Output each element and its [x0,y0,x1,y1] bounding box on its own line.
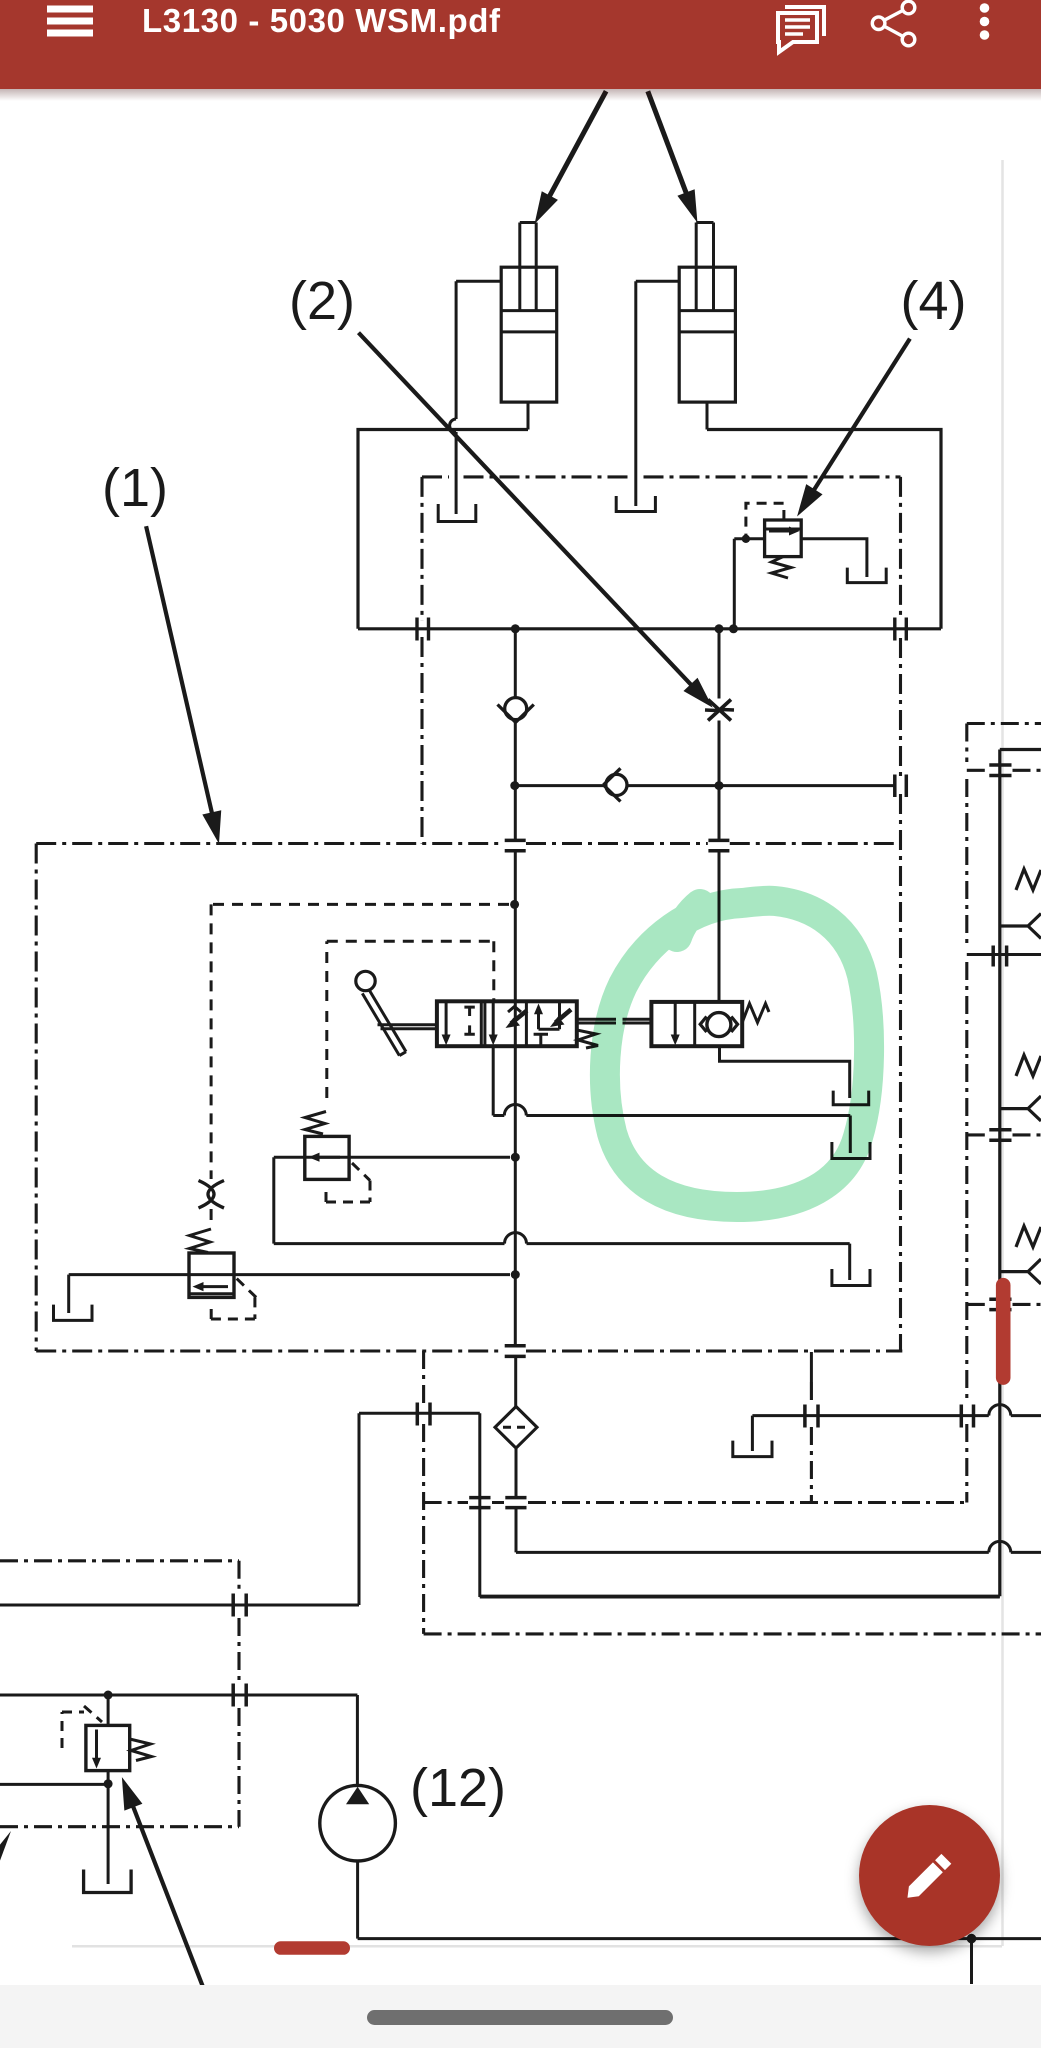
hamburger menu icon [47,9,93,33]
right valve actuator arrow 2 [1000,1096,1041,1121]
plugged port relief2 drain [54,1305,93,1321]
label (2) arrow [359,333,712,707]
wire tank return east [516,1551,1041,1554]
label arrow from off-screen to relief3 [123,1779,204,1987]
relief valve R1 spring [305,1112,326,1135]
pencil icon [903,1854,952,1903]
DV1 cell2 flow arrow [492,1001,495,1037]
wire orifice branch x719 [718,629,721,699]
boundary ticks y1415 at x967 [961,1405,973,1428]
DV1 cell2 throttle arrow [511,1011,527,1024]
green highlighter ring [605,901,869,1207]
relief valve R3 spring [130,1739,152,1761]
overflow menu icon [980,3,990,40]
wire suction stub [970,1939,973,1984]
plugged port return [733,1441,772,1457]
DV1 cell3 throttle arrow [556,1010,572,1023]
dash-dot enclosure 1 top edge [36,842,900,845]
directional valve DV1 body [437,1001,577,1046]
relief valve 4 flow arrow [769,530,793,533]
UV spring [742,1004,769,1023]
dash-dot transmission box top y1561 [0,1559,239,1562]
boundary ticks y1415 at x811 [805,1405,818,1428]
page right edge line [1001,160,1004,1946]
plugged port A2 [616,496,655,512]
junction dot P1 [511,624,520,633]
wire cylinder-left rod-side port [456,281,501,514]
wire pump outlet bottom [358,1861,1041,1939]
relief valve 4 pilot dashed [746,503,784,535]
wire relief2 tank drop [67,1275,70,1313]
label (1) arrow [146,526,221,842]
relief valve 4 seat line [765,528,802,531]
DV1 return spring [577,1030,598,1048]
boundary ticks x1000 at y1304 [989,1299,1011,1309]
pilot throttle symbol [199,1181,225,1209]
wire relief4 outlet [801,539,867,577]
wire jump y1415 over x1000 [989,1405,1011,1416]
junction dot pilot4 [742,535,750,543]
wire jump over block edge [450,419,456,432]
relief valve R2 flow arrow [198,1285,228,1288]
annotation icon [778,7,824,52]
DV1 cell1 flow arrow [445,1001,448,1037]
wire pump pressure east [480,1596,1000,1599]
page bottom edge line [72,1945,1002,1948]
relief valve R2 body [189,1253,234,1297]
right valve spring 3 [1016,1226,1041,1247]
pointer arrow to left cylinder [535,91,606,222]
plugged port T3 [832,1269,870,1286]
wire pressure line x515 upper [514,629,517,698]
relief valve R3 flow arrow [95,1730,98,1762]
cylinder left rod [520,223,536,311]
wire x515 to tee [514,720,517,840]
boundary ticks y1605 at x239 [233,1594,246,1617]
dash-dot transmission box right x239 [237,1561,240,1827]
dash-dot transmission box bottom y1827 [0,1825,239,1828]
wire DV1 tank line [493,1046,850,1153]
boundary ticks y1695 at x239 [233,1684,246,1707]
pilot dashed to relief1 [327,941,494,1001]
DV1 cell3 up arrow [539,1001,560,1029]
wire bridge line y785 [515,784,894,787]
unload valve UV body [651,1002,742,1046]
boundary ticks x1000 at y1135 [989,1130,1011,1140]
pointer arrow to right cylinder [648,91,697,221]
junction dot relief1 at x515 [511,1153,520,1162]
plugged port relief4 drain [847,568,886,583]
junction dot relief3 [104,1779,113,1788]
wire suction west y1605 [0,1604,359,1607]
orifice restrictor (2) [705,700,734,721]
cylinder left piston [501,311,557,332]
dash-dot right enclosure left x967 [965,724,968,1503]
DV1 cell1 blocked ports [464,1007,474,1034]
junction dot relief2 at x515 [511,1270,520,1279]
wire cylinder-right bottom port [706,402,709,429]
cylinder right rod [696,223,713,311]
wire x515 through valve [514,852,517,1345]
boundary ticks y785 at x900 [895,775,907,798]
share icon [872,1,915,46]
wire jump relief1 drain over x515 [505,1233,527,1244]
DV1 cell3 blocked port [534,1034,548,1046]
app bar [0,0,1041,89]
wire feed y1695 [0,1695,357,1785]
valve block solid outline [358,430,941,629]
wire relief1 drain loop [274,1157,850,1280]
cylinder left barrel [501,267,557,402]
right valve spring 2 [1016,1055,1041,1076]
dash-dot lower horizontal y1634 [424,1632,1041,1635]
wire relief4 inlet [734,539,764,629]
footer gesture area [0,1985,1041,2048]
wire relief3 outlet [107,1771,110,1884]
cylinder right piston [679,311,735,332]
lever shaft [362,990,406,1056]
boundary ticks x1000 at y954 [993,946,1006,967]
boundary ticks x515 on box1 bottom [505,1346,526,1357]
dash-dot right enclosure top y723 [967,722,1041,725]
relief valve R3 pilot dashed [62,1706,102,1748]
wire UV outlet [720,1046,850,1098]
dash-dot enclosure 1 bottom edge [36,1349,902,1352]
wire jump DV1 tank over x515 [504,1105,526,1116]
check valve V1 [505,698,527,720]
wire filter outlet [515,1448,518,1552]
junction dot P2 [715,624,724,633]
boundary ticks y1502 at x480 [469,1498,490,1508]
boundary ticks x516 on dashdot y1502 [505,1498,526,1508]
boundary ticks at x422 crossing [417,618,429,641]
boundary ticks at x900 crossing [895,618,907,641]
dash-dot stub below box1 at x811 [810,1352,813,1382]
wire y1784 west [0,1783,108,1786]
arrowhead at left edge [0,1831,11,1866]
pump P (12) [320,1785,396,1861]
right valve spring 1 [1016,869,1041,890]
right valve actuator arrow 3 [1000,1259,1041,1284]
right valve actuator arrow 1 [1000,914,1041,939]
boundary ticks y1413 at x423 [417,1403,430,1426]
wire right valve supply vertical [480,750,1041,1597]
wire relief2 main line [69,1273,510,1276]
wire jump over x1000 [989,1541,1011,1552]
pilot dashed below throttle [210,1209,213,1228]
boundary ticks x515 on box1 top [505,840,526,850]
check valve V2 [606,774,627,795]
wire right valve y954 [967,953,1041,956]
junction dot P3 [729,624,738,633]
lever knob [356,971,375,990]
label (4) arrow [798,339,910,515]
pilot dashed net to relief2 [211,904,509,1179]
relief valve 4 body [765,520,802,557]
dash-dot right stub y1304 [967,1303,1041,1306]
spool linkage dashes [577,1019,652,1023]
junction dot suction [967,1934,977,1944]
dash-dot upper enclosure top edge [422,475,901,478]
dash-dot right edge shared [899,477,902,1351]
wire relief3 inlet stem [107,1695,110,1725]
wire x515 to filter [514,1358,517,1407]
boundary ticks x1000 at y770 [989,765,1011,776]
junction dot T2 [715,781,724,790]
wire x719 lower [718,721,721,1003]
relief valve R1 pilot loop dashed [326,1163,370,1202]
filter F1 [495,1407,537,1449]
cylinder right barrel [679,267,735,402]
plugged port T2a [832,1142,870,1159]
wire return manifold y1415 [752,1416,1041,1451]
plugged port T1a [833,1091,869,1105]
wire relief1 main line [274,1156,510,1159]
boundary ticks x719 on box1 top [708,840,729,850]
dash-dot upper enclosure left edge [420,477,423,844]
UV check ball [707,1013,731,1037]
junction dot T1 [510,781,519,790]
junction dot pilot x515 [510,900,519,909]
valve block bottom edge [358,627,941,630]
relief valve R1 flow arrow [314,1156,340,1159]
dash-dot enclosure 1 left edge [35,844,38,1352]
relief valve R2 spring [190,1229,212,1253]
relief valve R2 pilot loop dashed [211,1279,257,1319]
plugged port relief3 drain [84,1870,132,1893]
wire pump pressure top [359,1413,480,1605]
wire cylinder-right rod-side port [636,281,679,506]
lever link rod [378,1025,437,1029]
dash-dot lower left vertical x423 [422,1351,425,1634]
red annotation pill vertical [996,1278,1011,1385]
relief valve R1 body [305,1136,349,1179]
relief valve R3 body [86,1725,130,1770]
dash-dot right stub y1135 [967,1133,1041,1136]
relief valve 4 spring [772,557,792,578]
dash-dot lower horizontal y1502 [424,1501,967,1504]
red annotation pill horizontal [274,1941,350,1955]
plugged port A1 [438,504,476,522]
wire cylinder-left bottom port [527,402,530,429]
UV flow arrow [674,1002,677,1038]
junction dot feed [104,1691,113,1700]
edit FAB [859,1805,1000,1946]
dash-dot right stub y770 [967,769,1041,772]
